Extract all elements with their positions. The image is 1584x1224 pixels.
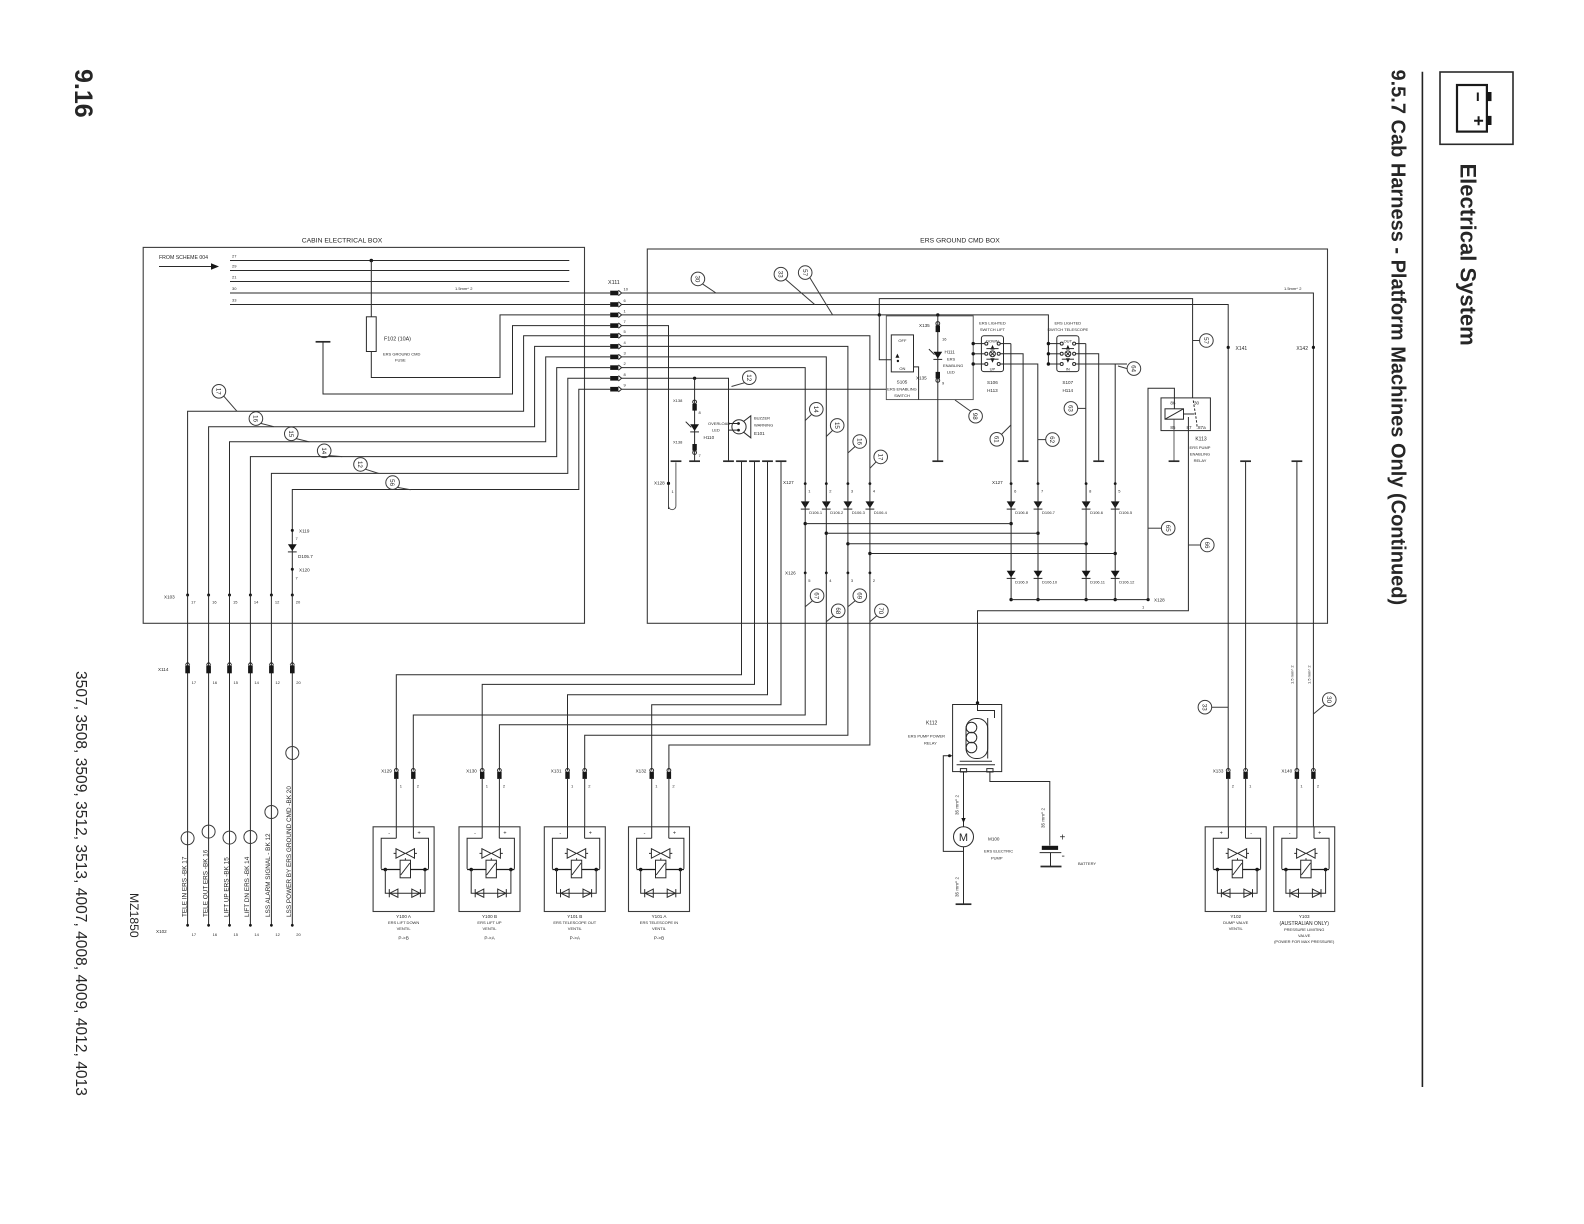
node X142: [1312, 346, 1315, 349]
svg-text:-: -: [1062, 851, 1065, 862]
X111 pin 7: [610, 323, 621, 328]
svg-text:SWITCH: SWITCH: [894, 393, 910, 398]
wire 20 to X102: [291, 595, 293, 925]
svg-text:OUT: OUT: [1064, 338, 1073, 343]
bottom bus to X128-1: [1011, 599, 1148, 601]
svg-text:Y103: Y103: [1299, 914, 1310, 919]
svg-text:BATTERY: BATTERY: [1078, 861, 1096, 866]
X111 pin 6: [610, 302, 621, 307]
valve plus wire: [669, 573, 870, 771]
left contact feeds: [973, 343, 985, 345]
wire number callout 70: [875, 604, 889, 618]
svg-text:H110: H110: [704, 435, 715, 440]
X111 pin 1: [610, 312, 621, 317]
svg-text:16: 16: [252, 415, 259, 422]
wire number callout 17: [212, 385, 226, 399]
X111 pin 10: [610, 290, 621, 295]
svg-text:RELAY: RELAY: [1194, 458, 1207, 463]
svg-text:RELAY: RELAY: [924, 741, 937, 746]
svg-text:20: 20: [296, 600, 301, 605]
wire 30 net (X111-10 to X142): [622, 293, 1314, 771]
wire number callout 30: [1323, 693, 1337, 707]
svg-text:SWITCH TELESCOPE: SWITCH TELESCOPE: [1047, 327, 1088, 332]
ground battery: [1041, 866, 1062, 868]
wire number callout 69: [853, 589, 867, 603]
svg-text:17: 17: [191, 600, 196, 605]
svg-text:14: 14: [254, 680, 259, 685]
svg-text:Electrical System: Electrical System: [1456, 164, 1481, 346]
svg-text:16: 16: [855, 438, 862, 445]
wire 15 to X102: [229, 595, 231, 925]
X111 pin 2: [610, 365, 621, 370]
svg-text:69: 69: [855, 592, 862, 599]
wire 12 cabin run: [271, 378, 610, 595]
svg-text:20: 20: [296, 932, 301, 937]
wire number callout 17: [874, 450, 888, 464]
X127 pin 7: [1037, 482, 1040, 485]
wire 21: [230, 281, 569, 283]
svg-text:LIFT UP ERS -BK 15: LIFT UP ERS -BK 15: [223, 857, 230, 917]
junction bottom: [1036, 598, 1039, 601]
diode D106.2: [822, 501, 831, 509]
svg-text:P->A: P->A: [484, 935, 495, 940]
wire number callout 16: [249, 412, 263, 426]
solenoid valve Y100 A: [373, 827, 434, 912]
svg-text:D106.10: D106.10: [1042, 580, 1058, 585]
junction: [804, 522, 807, 525]
svg-text:D106.7: D106.7: [1042, 510, 1056, 515]
svg-text:10: 10: [624, 287, 629, 292]
wire tap to X111 pin 7: [323, 326, 610, 394]
svg-text:VENTIL: VENTIL: [482, 926, 497, 931]
svg-text:MZ1850: MZ1850: [127, 893, 141, 938]
svg-text:15: 15: [234, 680, 239, 685]
svg-text:9.16: 9.16: [69, 69, 97, 118]
svg-text:D106.8: D106.8: [1015, 510, 1029, 515]
svg-text:64: 64: [1130, 365, 1137, 372]
wire 16 to X102: [208, 595, 210, 925]
svg-text:-: -: [474, 830, 476, 836]
wire column: [1010, 484, 1012, 600]
svg-text:S105: S105: [897, 379, 908, 384]
wire K112 to motor: [963, 772, 965, 827]
svg-text:S107: S107: [1062, 380, 1073, 385]
vertical divider rule: [1421, 72, 1423, 1087]
ground bus tap: [1292, 460, 1303, 462]
junction: [868, 552, 871, 555]
svg-text:K113: K113: [1195, 436, 1207, 442]
svg-text:12: 12: [275, 600, 280, 605]
ground bus tap: [671, 460, 682, 462]
diode D106.10: [1034, 571, 1043, 579]
svg-text:FUSE: FUSE: [395, 358, 406, 363]
svg-text:16: 16: [213, 932, 218, 937]
wire number callout 33: [774, 267, 788, 281]
svg-text:61: 61: [992, 436, 999, 443]
svg-text:ERS PUMP POWER: ERS PUMP POWER: [908, 734, 945, 739]
svg-text:X135: X135: [916, 376, 927, 381]
svg-text:(AUSTRALIAN ONLY): (AUSTRALIAN ONLY): [1280, 921, 1330, 927]
svg-text:X138: X138: [673, 440, 683, 445]
svg-text:X135: X135: [919, 323, 930, 328]
S106 row3 to D106.7 column: [1000, 364, 1038, 484]
svg-text:ERS LIGHTED: ERS LIGHTED: [1054, 320, 1081, 325]
right contact wires: [1076, 343, 1086, 345]
svg-text:DUMP VALVE: DUMP VALVE: [1223, 920, 1248, 925]
svg-text:30: 30: [1194, 401, 1200, 406]
diode D106.12: [1111, 571, 1120, 579]
svg-text:D106.11: D106.11: [1090, 580, 1106, 585]
splice on wire: [286, 747, 299, 760]
connector X120 pin 7: [291, 568, 294, 571]
wire diode to X126: [869, 484, 871, 573]
wire 14 net (X111-2 to X127-1): [622, 368, 806, 484]
battery G: [1042, 846, 1058, 850]
wire 15 net (X111-3 to X127-2): [622, 357, 827, 484]
svg-text:IN: IN: [1066, 366, 1070, 371]
wire diode to X126: [825, 484, 827, 573]
splice on wire: [265, 806, 278, 819]
ground H111: [932, 460, 943, 462]
X128 pin 1: [667, 482, 670, 485]
svg-text:FROM SCHEME 004: FROM SCHEME 004: [159, 255, 208, 261]
svg-text:98: 98: [971, 413, 978, 420]
diode D106.9: [1007, 571, 1016, 579]
wire number callout 64: [1127, 362, 1141, 376]
motor M100 ERS ELECTRIC PUMP: [954, 827, 974, 847]
X126 pin 5: [804, 572, 807, 575]
svg-text:X120: X120: [299, 568, 310, 573]
X111 pin 9: [610, 387, 621, 392]
svg-text:14: 14: [254, 600, 259, 605]
svg-text:17: 17: [215, 388, 222, 395]
svg-text:LSS ALARM SIGNAL - BK 12: LSS ALARM SIGNAL - BK 12: [265, 833, 272, 917]
connector X135 pin 16: [936, 322, 940, 326]
svg-text:87a: 87a: [1198, 425, 1206, 430]
X126 pin 2: [869, 572, 872, 575]
svg-text:ENABLING: ENABLING: [1190, 451, 1210, 456]
connector X138 pin 7: [692, 444, 696, 451]
wire 14 to X102: [249, 595, 251, 925]
svg-text:35 mm^ 2: 35 mm^ 2: [1041, 808, 1046, 828]
svg-text:X103: X103: [164, 595, 175, 600]
svg-text:35 mm^ 2: 35 mm^ 2: [954, 795, 959, 815]
svg-text:M100: M100: [988, 837, 1000, 842]
svg-text:H113: H113: [987, 388, 998, 393]
wire number callout 14: [810, 403, 824, 417]
X111 pin 5: [610, 333, 621, 338]
svg-text:1.5 mm^ 2: 1.5 mm^ 2: [1307, 665, 1312, 684]
X127 pin 8: [1085, 482, 1088, 485]
wire K112 to battery: [990, 772, 1050, 846]
svg-text:X128: X128: [654, 481, 665, 486]
svg-text:D105.7: D105.7: [298, 554, 313, 559]
svg-text:+: +: [503, 830, 506, 836]
wire number callout 30: [691, 272, 705, 286]
wire number callout 61: [990, 433, 1004, 447]
svg-text:62: 62: [1048, 436, 1055, 443]
svg-text:VALVE: VALVE: [1298, 933, 1311, 938]
wire K112 left branch: [943, 756, 963, 852]
svg-text:15: 15: [234, 932, 239, 937]
svg-text:M: M: [959, 832, 968, 844]
wire column: [1085, 484, 1087, 600]
svg-text:D106.2: D106.2: [830, 510, 844, 515]
left contact feeds: [1048, 343, 1060, 345]
svg-text:LED: LED: [947, 370, 955, 375]
diode D106.1: [801, 501, 810, 509]
valve minus wire: [568, 461, 768, 770]
wire number callout 68: [831, 604, 845, 618]
wire number callout 65: [1161, 521, 1175, 535]
fuse F102 (10A): [366, 317, 376, 352]
svg-text:15: 15: [233, 600, 238, 605]
wire to H111: [937, 315, 939, 461]
junction: [1114, 552, 1117, 555]
svg-text:OVERLOAD: OVERLOAD: [708, 421, 730, 426]
X127 pin 4: [869, 482, 872, 485]
valve plus wire: [413, 573, 805, 771]
svg-text:70: 70: [877, 607, 884, 614]
svg-text:D106.1: D106.1: [809, 510, 823, 515]
svg-text:X138: X138: [673, 398, 683, 403]
svg-text:33: 33: [777, 271, 784, 278]
svg-text:F102 (10A): F102 (10A): [384, 337, 411, 343]
junction: [1084, 542, 1087, 545]
solenoid valve Y102: [1205, 827, 1266, 912]
svg-text:X133: X133: [1213, 769, 1224, 774]
svg-text:ERS GROUND CMD: ERS GROUND CMD: [383, 352, 420, 357]
svg-text:H111: H111: [945, 350, 956, 355]
svg-text:X140: X140: [1281, 769, 1292, 774]
connector X138 pin 8: [693, 400, 697, 404]
splice on wire: [244, 831, 257, 844]
svg-text:ERS TELESCOPE OUT: ERS TELESCOPE OUT: [553, 920, 596, 925]
wire column: [1037, 484, 1039, 600]
wire K113-85 to ground: [1173, 419, 1175, 461]
svg-text:14: 14: [812, 406, 819, 413]
X111 pin 4: [610, 344, 621, 349]
svg-text:29: 29: [232, 264, 237, 269]
wire to H110: [694, 378, 696, 461]
svg-text:VENTIL: VENTIL: [1229, 926, 1244, 931]
relay K112 ERS PUMP POWER RELAY: [976, 701, 979, 704]
svg-text:X130: X130: [466, 769, 477, 774]
X127 pin 1: [804, 482, 807, 485]
junction: [1009, 522, 1012, 525]
svg-text:ERS: ERS: [947, 357, 956, 362]
solenoid valve Y101 B: [544, 827, 605, 912]
diode D106.3: [844, 501, 853, 509]
ground buzzer: [723, 460, 734, 462]
wire number callout 98: [969, 409, 983, 423]
junction: [1036, 532, 1039, 535]
junction: [846, 542, 849, 545]
wire to S105: [879, 315, 891, 360]
valve plus wire: [499, 573, 826, 771]
ground bus tap: [762, 460, 773, 462]
svg-text:17: 17: [192, 680, 197, 685]
wire number callout 66: [1201, 538, 1215, 552]
svg-text:87: 87: [1187, 425, 1193, 430]
wire 17 cabin run: [188, 336, 611, 595]
svg-text:LSS POWER BY ERS GROUND CMD -B: LSS POWER BY ERS GROUND CMD -BK 20: [286, 786, 293, 917]
svg-text:+: +: [1220, 830, 1223, 836]
wire 33 net (X111-6 to X141): [622, 305, 1229, 772]
svg-text:X142: X142: [1296, 346, 1308, 352]
X111 pin 8: [610, 376, 621, 381]
junction bottom: [1009, 598, 1012, 601]
X127 pin 6: [1010, 482, 1013, 485]
bus tap symbol: [316, 341, 331, 343]
svg-text:16: 16: [212, 600, 217, 605]
svg-text:-: -: [1289, 830, 1291, 836]
wire 17 to X102: [187, 595, 189, 925]
solenoid valve Y103: [1274, 827, 1335, 912]
svg-text:Y102: Y102: [1230, 914, 1241, 919]
wire 30: [230, 292, 610, 294]
wire 27: [230, 260, 569, 262]
diode bus: [826, 532, 1038, 534]
svg-text:+: +: [418, 830, 421, 836]
svg-text:D106.5: D106.5: [1119, 510, 1133, 515]
diode D106.6: [1082, 501, 1091, 509]
connector X119 pin 7: [291, 529, 294, 532]
svg-text:X128: X128: [1154, 598, 1165, 603]
svg-text:12: 12: [745, 374, 752, 381]
svg-text:68: 68: [834, 607, 841, 614]
svg-text:D106.6: D106.6: [1090, 510, 1104, 515]
svg-text:15: 15: [287, 430, 294, 437]
junction on wire 27: [370, 259, 374, 263]
svg-text:X114: X114: [158, 667, 169, 672]
svg-text:Y100 A: Y100 A: [396, 914, 412, 919]
wire 12 net (X111-8 to buzzer): [622, 378, 729, 461]
terminal X128 pin 1: [1147, 598, 1150, 601]
S107 row3 to D106.5 column: [1076, 364, 1127, 484]
svg-text:20: 20: [296, 680, 301, 685]
relay K113 ERS PUMP ENABLING RELAY: [1161, 398, 1210, 431]
wire number callout 12: [743, 371, 757, 385]
svg-text:1.5 mm^ 2: 1.5 mm^ 2: [1290, 665, 1295, 684]
wire K113-86 to X128-1: [1148, 388, 1174, 599]
wire 15 cabin run: [230, 357, 611, 595]
valve plus wire: [585, 573, 848, 771]
svg-text:-: -: [559, 830, 561, 836]
X127 pin 5: [1114, 482, 1117, 485]
ground bus tap: [776, 460, 787, 462]
solenoid valve Y100 B: [459, 827, 520, 912]
svg-text:16: 16: [213, 680, 218, 685]
diode bus: [848, 543, 1086, 545]
S106 row1 to D106.8 column: [1010, 344, 1012, 484]
svg-text:33: 33: [232, 298, 237, 303]
wire 16 net (X111-4 to X127-3): [622, 346, 848, 483]
S105 sub-box: [886, 316, 973, 400]
svg-text:12: 12: [275, 932, 280, 937]
svg-text:Y101 A: Y101 A: [652, 914, 668, 919]
wire diode to X126: [804, 484, 806, 573]
svg-text:X126: X126: [785, 571, 796, 576]
svg-text:15: 15: [833, 422, 840, 429]
svg-text:D106.9: D106.9: [1015, 580, 1029, 585]
diode bus: [870, 553, 1115, 555]
diode D105.7: [288, 544, 297, 552]
wire 14 cabin run: [250, 368, 610, 595]
svg-text:ERS GROUND CMD BOX: ERS GROUND CMD BOX: [920, 238, 1000, 245]
diode D106.8: [1007, 501, 1016, 509]
wire 33: [230, 304, 610, 306]
S105 output wire: [914, 367, 919, 400]
junction bottom: [1114, 598, 1117, 601]
connector X135 pin 9: [936, 372, 940, 379]
valve minus wire: [396, 461, 741, 770]
junction wire57/H111: [936, 313, 939, 316]
wire number callout 16: [853, 435, 867, 449]
junction on wire 12: [693, 377, 696, 380]
svg-text:+: +: [673, 830, 676, 836]
svg-text:35 mm^ 2: 35 mm^ 2: [954, 877, 959, 897]
svg-text:56: 56: [388, 479, 395, 486]
svg-text:12: 12: [275, 680, 280, 685]
svg-text:VENTIL: VENTIL: [568, 926, 583, 931]
LED H111 ERS ENABLING LED: [933, 352, 942, 360]
svg-text:14: 14: [254, 932, 259, 937]
svg-text:CABIN ELECTRICAL BOX: CABIN ELECTRICAL BOX: [302, 238, 383, 245]
svg-text:65: 65: [1164, 525, 1171, 532]
svg-text:ERS LIGHTED: ERS LIGHTED: [979, 320, 1006, 325]
wire number callout 12: [354, 458, 368, 472]
right contact wires: [1000, 343, 1011, 345]
svg-text:X127: X127: [783, 480, 794, 485]
svg-text:12: 12: [356, 461, 363, 468]
svg-text:LED: LED: [712, 428, 720, 433]
wire diode to X126: [847, 484, 849, 573]
svg-text:D106.12: D106.12: [1119, 580, 1135, 585]
svg-text:17: 17: [876, 453, 883, 460]
junction wire57/S105: [878, 313, 881, 316]
wire 56 cabin run: [292, 389, 610, 595]
ground bus tap: [736, 460, 747, 462]
svg-text:21: 21: [232, 275, 237, 280]
svg-text:X102: X102: [156, 929, 167, 934]
svg-text:P->B: P->B: [398, 935, 408, 940]
wire fuse to X111 pin 1: [371, 315, 610, 378]
ground bus tap: [749, 460, 760, 462]
svg-text:X141: X141: [1236, 346, 1248, 352]
wire number callout 57 at K113: [1200, 334, 1214, 348]
svg-text:PRESSURE LIMITING: PRESSURE LIMITING: [1284, 927, 1324, 932]
svg-text:1.5mm^ 2: 1.5mm^ 2: [455, 286, 473, 291]
X111 pin 3: [610, 354, 621, 359]
wire 12 to X102: [270, 595, 272, 925]
svg-text:33: 33: [1201, 704, 1208, 711]
wire to fuse F102: [370, 261, 372, 317]
diode D106.5: [1111, 501, 1120, 509]
svg-text:3507, 3508, 3509, 3512, 3513,: 3507, 3508, 3509, 3512, 3513, 4007, 4008…: [72, 671, 89, 1096]
wire number callout 57: [798, 266, 812, 280]
X127 pin 2: [825, 482, 828, 485]
S107 row1 to D106.6 column: [1085, 344, 1087, 484]
svg-text:K112: K112: [926, 721, 938, 727]
svg-text:27: 27: [232, 254, 237, 259]
svg-text:ERS LIFT DOWN: ERS LIFT DOWN: [388, 920, 419, 925]
valve minus wire: [482, 461, 754, 770]
wire 57 branch to K113-30: [879, 299, 1192, 398]
svg-text:-: -: [644, 830, 646, 836]
wire 16 cabin run: [209, 346, 611, 595]
svg-text:LIFT DN ERS -BK 14: LIFT DN ERS -BK 14: [244, 856, 251, 917]
